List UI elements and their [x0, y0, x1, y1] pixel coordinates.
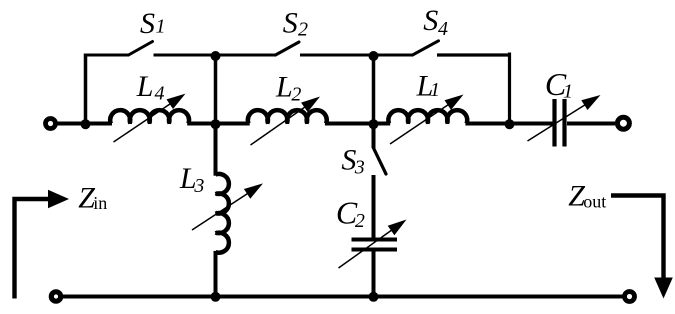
Zout indicator arrow [611, 196, 673, 299]
svg-text:3: 3 [193, 175, 204, 197]
wire main rail: terminal to L4 [58, 122, 113, 126]
svg-text:S: S [283, 7, 298, 40]
node E junction dot (L3 / bottom rail) [211, 292, 221, 302]
capacitor C2 [336, 195, 407, 268]
node D junction dot (S4 corner / main rail) [505, 119, 515, 129]
node Zout label [568, 180, 606, 213]
terminal input top (open circle) [46, 119, 56, 129]
terminal input bottom (open circle) [51, 292, 60, 301]
wire main rail right of C1 [567, 122, 615, 126]
terminal output bottom (open circle) [625, 292, 635, 302]
svg-text:L: L [136, 70, 154, 103]
capacitor C1 [528, 66, 601, 147]
inductor L2 [248, 70, 327, 145]
svg-text:4: 4 [155, 82, 165, 104]
wire right riser [372, 55, 376, 124]
svg-text:1: 1 [563, 81, 573, 103]
node F junction dot (C2 / bottom rail) [369, 292, 379, 302]
switch S1 [129, 7, 166, 55]
svg-text:in: in [93, 193, 107, 213]
wire S3 branch upper [372, 124, 376, 149]
wire main rail: L4 to L2 [187, 122, 250, 126]
node A junction dot (left riser / main rail) [81, 119, 91, 129]
node T2 junction dot [369, 51, 379, 61]
svg-text:S: S [140, 7, 155, 40]
wire between S3 and C2 [372, 175, 376, 238]
wire left riser [84, 54, 88, 124]
svg-text:L: L [275, 70, 293, 103]
wire top rail between node T2 and S4 [374, 54, 413, 57]
node C junction dot (right riser / main rail) [369, 119, 379, 129]
node Zin label [78, 181, 107, 214]
svg-text:2: 2 [355, 210, 365, 232]
node T1 junction dot [211, 51, 221, 61]
switch S2 [276, 7, 309, 55]
svg-text:2: 2 [298, 19, 308, 41]
terminal output top (open circle) [617, 117, 629, 129]
wire middle riser [214, 55, 218, 124]
svg-text:S: S [423, 4, 438, 37]
wire L3 branch upper [214, 124, 218, 176]
wire top rail right segment with corner down to main rail [437, 53, 510, 124]
wire C2 to bottom rail [372, 252, 376, 297]
svg-text:2: 2 [291, 84, 301, 106]
wire main rail: L2 to L1 [325, 122, 390, 126]
wire main rail: L1 to C1 [465, 122, 552, 126]
wire bottom rail [63, 295, 623, 299]
wire top rail left segment [84, 54, 129, 57]
inductor L1 [388, 70, 467, 145]
wire L3 branch lower [214, 251, 218, 297]
node B junction dot (middle riser / main rail) [211, 119, 221, 129]
Zin indicator arrow [15, 190, 70, 299]
wire top rail between S1 and node T1 [154, 54, 216, 57]
switch S4 [413, 4, 449, 55]
svg-text:3: 3 [354, 157, 365, 179]
svg-text:4: 4 [438, 18, 448, 40]
switch S3 [341, 144, 386, 179]
wire top rail between node T1 and S2 [216, 54, 276, 57]
svg-text:out: out [583, 191, 606, 211]
inductor L4 [110, 70, 189, 142]
inductor L3 [179, 162, 263, 253]
wire top rail between S2 and node T2 [300, 54, 374, 57]
svg-text:1: 1 [430, 79, 440, 101]
svg-text:1: 1 [156, 16, 166, 38]
